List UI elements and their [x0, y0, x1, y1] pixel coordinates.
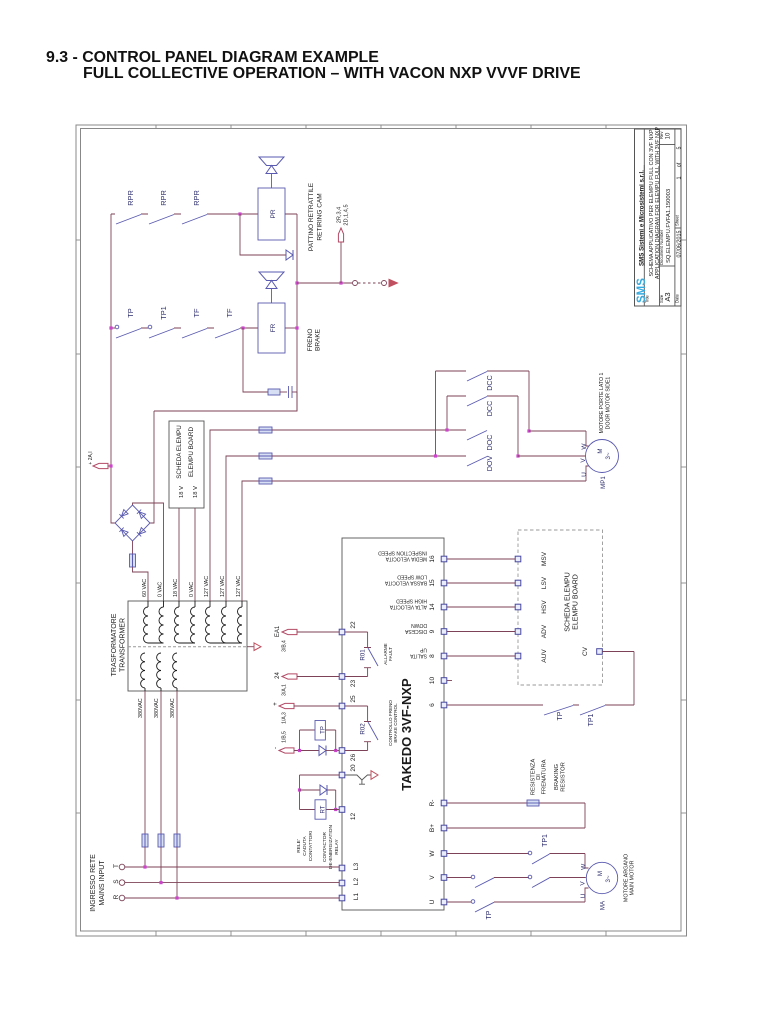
pin 10 stub [447, 680, 452, 682]
secondary windings [144, 607, 149, 643]
svg-text:S: S [113, 879, 120, 884]
svg-text:380VAC: 380VAC [170, 698, 176, 718]
date/sheet row [675, 227, 681, 229]
rail 127VAC #3 with fuse [242, 481, 259, 601]
svg-text:1: 1 [676, 177, 682, 180]
contact RPR 2 [149, 215, 174, 225]
svg-text:BASSA VELOCITA: BASSA VELOCITA [384, 580, 427, 586]
svg-text:DE-ENERGIZATION: DE-ENERGIZATION [328, 825, 334, 869]
contact DCC 1 [467, 372, 487, 382]
braking resistor symbol [527, 800, 539, 806]
DCC rail B [447, 396, 518, 456]
wire U row [447, 888, 589, 902]
svg-text:AUV: AUV [541, 649, 548, 663]
svg-text:380VAC: 380VAC [138, 698, 144, 718]
svg-text:TP: TP [126, 308, 135, 318]
svg-text:SCHEDA ELEMPU: SCHEDA ELEMPU [176, 425, 183, 479]
contacts RPR RPR RPR row wire [111, 213, 258, 215]
svg-text:of: of [676, 162, 682, 167]
pin B+ [441, 825, 447, 831]
svg-text:0 VAC: 0 VAC [189, 582, 195, 597]
svg-text:SQ.ELEMPU.FVFA1.150003: SQ.ELEMPU.FVFA1.150003 [666, 189, 672, 263]
board pin HSV [515, 604, 521, 610]
contact TP1 (inspection) [580, 706, 605, 716]
frame zone tick marks [76, 239, 81, 241]
wire horn to PR [271, 174, 273, 188]
svg-text:CADUTA: CADUTA [302, 836, 308, 856]
junction bus/TP-row [109, 326, 112, 329]
svg-text:3/B,4: 3/B,4 [282, 640, 288, 652]
svg-text:18 V: 18 V [179, 486, 185, 498]
wire pin to AUV [447, 655, 515, 657]
pin 12 [339, 807, 345, 813]
svg-text:V: V [580, 458, 587, 463]
svg-text:Title: Title [645, 295, 650, 303]
svg-text:RPR: RPR [159, 190, 168, 206]
svg-text:RPR: RPR [192, 190, 201, 206]
junction PR-left [238, 212, 241, 215]
contact TF 1 [182, 329, 207, 339]
pin 20 earth symbol [345, 775, 371, 780]
svg-text:Rev: Rev [659, 131, 664, 139]
wire pin to LSV [447, 582, 515, 584]
RC snubber row [243, 328, 268, 392]
svg-text:V: V [429, 875, 436, 880]
svg-text:DCC: DCC [485, 401, 494, 417]
pin 14 [441, 604, 447, 610]
svg-text:MAIN MOTOR: MAIN MOTOR [630, 860, 636, 895]
rail 127VAC #1 with fuse [210, 430, 259, 601]
bridge DC- fuse to tap 60VAC [132, 541, 134, 554]
pin 10 [441, 678, 447, 684]
pin W [441, 851, 447, 857]
svg-text:FAULT: FAULT [388, 647, 393, 661]
pin U [441, 899, 447, 905]
svg-text:TP1: TP1 [159, 306, 168, 320]
pin V [441, 875, 447, 881]
svg-text:TP: TP [321, 726, 327, 734]
relay coil FR [258, 303, 285, 353]
contact TP1 [149, 329, 174, 339]
retiring-cam magnet symbol [259, 157, 284, 166]
svg-text:127 VAC: 127 VAC [220, 576, 226, 597]
flyback diode D-PR row [240, 214, 286, 255]
pin 26 [339, 748, 345, 754]
svg-text:M: M [597, 448, 604, 453]
board pins to transformer 18VAC/0VAC [178, 508, 180, 601]
svg-text:+ 2A,I: + 2A,I [88, 451, 94, 464]
svg-text:R-: R- [429, 800, 436, 807]
off-page connector flag 2A,I [93, 463, 108, 468]
svg-text:EA1: EA1 [275, 625, 281, 637]
svg-text:3~: 3~ [605, 875, 612, 882]
wire W row [447, 854, 589, 869]
contact TP1 on W [528, 851, 532, 855]
svg-text:DOOR MOTOR SIDE1: DOOR MOTOR SIDE1 [606, 377, 612, 430]
svg-text:W: W [429, 850, 436, 857]
plug contacts to retiring cam [353, 281, 358, 286]
contact TP on U [471, 900, 475, 904]
wire: DC return to rectifier [150, 392, 297, 523]
DCC rail A [436, 371, 530, 456]
svg-text:Date: Date [674, 293, 679, 303]
svg-text:W: W [581, 443, 588, 450]
svg-text:L1: L1 [353, 893, 360, 901]
svg-text:1/B,5: 1/B,5 [282, 731, 288, 743]
main motor MA [586, 862, 617, 893]
svg-text:12: 12 [350, 813, 357, 821]
ELEMPU board box [169, 421, 204, 508]
svg-text:RELE': RELE' [296, 839, 302, 853]
wire horn to FR [271, 289, 273, 303]
svg-text:B+: B+ [429, 824, 436, 832]
size/doc/rev row [660, 265, 675, 267]
junction FR-left [241, 326, 244, 329]
svg-text:MEDIA VELOCITA: MEDIA VELOCITA [385, 556, 427, 562]
svg-text:15: 15 [429, 579, 436, 587]
svg-text:HIGH SPEED: HIGH SPEED [396, 598, 427, 604]
title block outline [635, 129, 682, 306]
svg-text:10: 10 [429, 677, 436, 685]
relay contact R01 (fault) [345, 632, 371, 677]
transformer core earth [247, 646, 254, 648]
wire pin to ADV [447, 631, 515, 633]
svg-text:R01: R01 [360, 649, 367, 661]
svg-text:L2: L2 [353, 878, 360, 886]
svg-text:-: - [273, 747, 279, 749]
svg-text:ELEMPU BOARD: ELEMPU BOARD [188, 427, 195, 477]
wire V row [447, 877, 586, 879]
svg-text:RPR: RPR [126, 190, 135, 206]
wire FR right [285, 327, 297, 329]
svg-text:LOW SPEED: LOW SPEED [397, 574, 427, 580]
off-page connector flag 2R,3,4 / 2D,1,4,5 [340, 242, 342, 283]
svg-text:ELEMPU BOARD: ELEMPU BOARD [573, 574, 580, 630]
ELEMPU control board dashed box [518, 530, 603, 685]
contact RPR 3 [182, 215, 207, 225]
svg-text:TP1: TP1 [588, 713, 595, 726]
svg-text:MSV: MSV [541, 551, 548, 566]
coil TP box [315, 721, 325, 741]
svg-text:18 V: 18 V [193, 486, 199, 498]
wire [292, 391, 297, 393]
svg-text:INGRESSO RETE: INGRESSO RETE [90, 854, 97, 912]
svg-text:8: 8 [429, 654, 436, 658]
svg-text:380VAC: 380VAC [154, 698, 160, 718]
mains input terminals R S T [119, 864, 125, 870]
svg-text:UP: UP [419, 647, 427, 653]
board pin MSV [515, 556, 521, 562]
svg-text:RT: RT [321, 805, 327, 813]
relay coil TP with flyback diode [298, 749, 301, 752]
pin L1 [339, 895, 345, 901]
mains wires to L3 L2 L1 [125, 866, 339, 868]
svg-text:DOV: DOV [485, 456, 494, 472]
svg-text:FR: FR [270, 323, 277, 332]
svg-text:1/A,3: 1/A,3 [282, 712, 288, 724]
pin R- [441, 800, 447, 806]
pin L3 [339, 865, 345, 871]
board pin LSV [515, 580, 521, 586]
svg-text:PATTINO RETRATTILE: PATTINO RETRATTILE [308, 182, 315, 251]
svg-text:LSV: LSV [541, 576, 548, 589]
svg-text:U: U [580, 893, 587, 898]
svg-text:23: 23 [350, 680, 357, 688]
svg-text:16: 16 [429, 555, 436, 563]
contact TP on V [471, 875, 475, 879]
svg-text:DCC: DCC [485, 375, 494, 391]
svg-text:TRASFORMATORE: TRASFORMATORE [111, 613, 118, 676]
svg-text:2D,1,4,5: 2D,1,4,5 [344, 204, 350, 225]
snubber resistor [268, 389, 280, 395]
contact TF 2 [215, 329, 240, 339]
pin 9 [441, 629, 447, 635]
door motor MP1 [586, 440, 619, 473]
pin 23 [339, 674, 345, 680]
wire [280, 391, 287, 393]
board pin ADV [515, 629, 521, 635]
rail 127VAC #2 with fuse [226, 456, 259, 601]
svg-text:FULL COLLECTIVE OPERATION – WI: FULL COLLECTIVE OPERATION – WITH VACON N… [83, 65, 581, 82]
wire pin to MSV [447, 558, 515, 560]
board pin AUV [515, 653, 521, 659]
svg-text:BRAKE: BRAKE [315, 328, 322, 351]
svg-text:W: W [581, 863, 588, 870]
svg-text:Sheet: Sheet [674, 214, 679, 226]
svg-text:TP1: TP1 [542, 834, 549, 847]
svg-text:ALTA VELOCITA: ALTA VELOCITA [389, 604, 427, 610]
svg-text:9: 9 [429, 629, 436, 633]
svg-text:3~: 3~ [605, 452, 612, 459]
drawing frame inner border [81, 129, 682, 932]
svg-text:ADV: ADV [541, 624, 548, 638]
wire: left supply bus [111, 214, 115, 523]
contact TP (inspection) [544, 706, 573, 716]
svg-text:MA: MA [600, 900, 607, 910]
connector 24 to pin 23 [282, 674, 297, 679]
pin 16 [441, 556, 447, 562]
svg-text:L3: L3 [353, 863, 360, 871]
contacts TP TP1 TF TF row wire [111, 327, 258, 329]
svg-text:A3: A3 [663, 292, 672, 301]
svg-text:14: 14 [429, 603, 436, 611]
svg-text:HSV: HSV [541, 600, 548, 614]
svg-text:RESISTOR: RESISTOR [561, 762, 567, 792]
svg-text:22: 22 [350, 621, 357, 629]
relay coil RT with flyback diode [300, 775, 340, 810]
wire PR right [285, 214, 297, 411]
pin 20 [339, 772, 345, 778]
transformer box [128, 601, 247, 691]
svg-text:0 VAC: 0 VAC [158, 582, 164, 597]
svg-text:V: V [580, 881, 587, 886]
svg-text:MAINS INPUT: MAINS INPUT [99, 860, 106, 906]
svg-text:24: 24 [275, 672, 281, 679]
svg-text:6: 6 [429, 703, 436, 707]
svg-text:60 VAC: 60 VAC [142, 579, 148, 597]
connector - 1/B,5 [279, 748, 294, 753]
primary feed fuses [144, 691, 146, 834]
svg-text:9.3 - CONTROL PANEL DIAGRAM EX: 9.3 - CONTROL PANEL DIAGRAM EXAMPLE [46, 49, 379, 66]
svg-text:127 VAC: 127 VAC [236, 576, 242, 597]
bridge AC1 to tap 0VAC [133, 503, 164, 601]
CV wire through TP TP1 to pin 6 [447, 652, 634, 706]
svg-text:CONTACTOR: CONTACTOR [322, 831, 328, 861]
pin 6 [441, 702, 447, 708]
svg-text:DOWN: DOWN [411, 622, 427, 628]
svg-text:TRANSFORMER: TRANSFORMER [120, 618, 127, 672]
svg-text:3/A,1: 3/A,1 [282, 684, 288, 696]
svg-text:SALITA: SALITA [409, 653, 427, 659]
svg-text:MP1: MP1 [600, 476, 607, 489]
svg-text:+: + [273, 702, 279, 706]
svg-text:U: U [581, 472, 588, 477]
svg-text:M: M [597, 871, 604, 876]
snubber capacitor [288, 386, 290, 398]
svg-text:CONTATTORI: CONTATTORI [308, 831, 314, 861]
contact RPR 1 [116, 215, 141, 225]
contact DOV on rail 2 [434, 454, 437, 457]
connector EA1 to pin 22 [282, 629, 297, 634]
svg-text:RELAY: RELAY [334, 839, 340, 855]
svg-text:MOTORE PORTE LATO 1: MOTORE PORTE LATO 1 [599, 373, 605, 434]
contact DCC 2 [467, 397, 487, 407]
svg-text:TF: TF [192, 308, 201, 318]
coil RT box [315, 800, 326, 819]
svg-text:R: R [113, 894, 120, 899]
TAKEDO 3VF-NXP box [342, 538, 444, 910]
bridge rectifier [115, 505, 150, 541]
pin L2 [339, 880, 345, 886]
svg-text:INSPECTION SPEED: INSPECTION SPEED [378, 550, 427, 556]
pin 25 [339, 703, 345, 709]
wire to door motor V [518, 455, 586, 457]
svg-text:BRAKING: BRAKING [554, 763, 560, 790]
svg-text:10: 10 [666, 132, 672, 139]
board pin CV [597, 649, 603, 655]
svg-text:25: 25 [350, 695, 357, 703]
contact DOC on rail 1 [445, 428, 448, 431]
svg-text:FRENO: FRENO [307, 329, 314, 352]
svg-text:DOC: DOC [485, 435, 494, 451]
svg-text:2R,3,4: 2R,3,4 [337, 207, 343, 223]
braking resistor loop R- B+ [447, 802, 527, 804]
contact TP1 on V [528, 875, 532, 879]
svg-text:CV: CV [582, 646, 589, 656]
relay coil PR [258, 188, 285, 240]
wire to door motor W [529, 431, 589, 446]
svg-text:TAKEDO 3VF-NXP: TAKEDO 3VF-NXP [399, 678, 414, 791]
svg-text:07/06/2015: 07/06/2015 [676, 231, 682, 258]
svg-text:DISCESA: DISCESA [404, 628, 427, 634]
svg-text:T: T [113, 864, 120, 868]
pin 8 [441, 653, 447, 659]
svg-text:Document Number: Document Number [659, 229, 664, 265]
svg-text:BRAKE CONTROL: BRAKE CONTROL [393, 703, 398, 743]
primary windings 380VAC [141, 653, 145, 688]
svg-text:R02: R02 [360, 723, 367, 735]
svg-text:TF: TF [225, 308, 234, 318]
wire pin to HSV [447, 606, 515, 608]
svg-text:127 VAC: 127 VAC [204, 576, 210, 597]
svg-text:U: U [429, 899, 436, 904]
svg-text:26: 26 [350, 754, 357, 762]
brake magnet symbol [259, 272, 284, 281]
svg-text:SCHEDA ELEMPU: SCHEDA ELEMPU [565, 572, 572, 632]
contact TP [116, 329, 141, 339]
svg-text:20: 20 [350, 764, 357, 772]
svg-text:18 VAC: 18 VAC [173, 579, 179, 597]
svg-text:TP: TP [486, 910, 493, 919]
node: wire to retiring cam connector [295, 281, 298, 284]
svg-text:RETIRING CAM: RETIRING CAM [317, 193, 324, 240]
svg-text:FRENATURA: FRENATURA [542, 759, 548, 794]
connector + 1/A,3 to pin 25 [279, 703, 294, 708]
pin 15 [441, 580, 447, 586]
svg-text:TP: TP [557, 711, 564, 720]
drawing frame outer border [76, 125, 687, 936]
relay contact R02 (brake control) [345, 706, 371, 751]
svg-text:5: 5 [676, 147, 682, 150]
svg-text:PR: PR [270, 209, 277, 218]
pin 22 [339, 629, 345, 635]
